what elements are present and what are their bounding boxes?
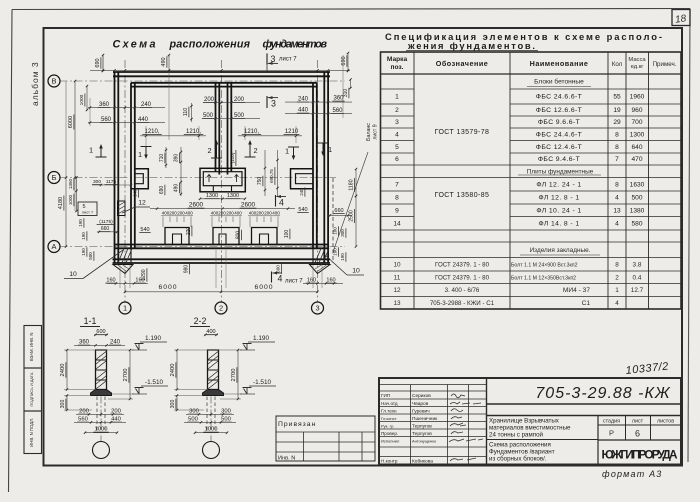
svg-text:360: 360 [79, 340, 90, 346]
svg-text:лист: лист [632, 419, 644, 425]
section 1-1 dim 2400 [66, 350, 68, 390]
svg-text:альбом 3: альбом 3 [30, 61, 40, 106]
svg-text:12.7: 12.7 [631, 287, 644, 294]
svg-text:Фундаментов /вариант: Фундаментов /вариант [489, 449, 555, 456]
pilaster on bottom wall [213, 228, 239, 245]
svg-text:200: 200 [218, 211, 226, 216]
svg-text:4: 4 [615, 300, 619, 307]
svg-text:1: 1 [395, 94, 399, 101]
svg-text:2400: 2400 [170, 364, 176, 377]
svg-text:8: 8 [615, 131, 619, 138]
svg-text:110: 110 [183, 108, 189, 116]
svg-text:ГИП: ГИП [381, 393, 390, 398]
svg-text:Марка: Марка [387, 56, 408, 63]
drawing frame [44, 28, 683, 466]
svg-text:Привязан: Привязан [278, 421, 316, 428]
привязан table box [276, 416, 375, 461]
section 2-2 axis stem [210, 397, 212, 442]
svg-text:ФБС 24.4.6-Т: ФБС 24.4.6-Т [536, 131, 582, 138]
paper edge top [12, 9, 690, 10]
svg-text:12: 12 [393, 287, 401, 294]
svg-text:310: 310 [343, 89, 349, 98]
svg-text:Кол: Кол [612, 61, 623, 68]
svg-text:ФБС 12.6.6-Т: ФБС 12.6.6-Т [536, 107, 582, 114]
spec table row lines [381, 89, 682, 297]
svg-text:560: 560 [332, 108, 343, 114]
section 1-1 dashed pier below [96, 397, 98, 434]
corner block left [118, 248, 131, 263]
svg-text:440: 440 [298, 108, 309, 114]
svg-text:расположения: расположения [169, 39, 252, 51]
paper edge right [688, 9, 690, 463]
svg-text:300: 300 [170, 400, 176, 409]
svg-text:Нач.отд: Нач.отд [381, 401, 398, 406]
svg-text:300: 300 [60, 400, 66, 409]
svg-text:3. 400 - 6/76: 3. 400 - 6/76 [445, 287, 480, 294]
axis line Б horizontal [60, 177, 337, 179]
svg-text:Обозначение: Обозначение [436, 59, 489, 68]
section mark 3 top (3 лист 7) [266, 53, 268, 64]
dim lines inner left verticals [165, 147, 167, 168]
axis circle 3 [312, 302, 324, 314]
wall right outer pair [323, 72, 325, 263]
svg-text:190: 190 [81, 232, 86, 240]
svg-text:Исполнил: Исполнил [381, 439, 400, 444]
dim ticks second row [88, 122, 165, 124]
dim 1180 vertical right [355, 169, 357, 196]
svg-text:3: 3 [271, 54, 276, 64]
svg-text:500: 500 [631, 195, 642, 202]
wall right inner pair [312, 83, 314, 248]
section mark 1 outer left [100, 148, 102, 158]
svg-text:220: 220 [186, 227, 192, 236]
svg-text:1210,: 1210, [244, 129, 259, 135]
svg-text:Наименование: Наименование [530, 59, 589, 68]
wall top outer pair [113, 71, 330, 73]
section 1-1 axis stem [100, 397, 102, 442]
axis line 1 vertical [124, 60, 126, 302]
svg-text:Блоки бетонные: Блоки бетонные [534, 78, 584, 86]
wall bottom upper pair [115, 244, 329, 246]
svg-text:200: 200 [204, 97, 215, 103]
svg-text:1000: 1000 [95, 427, 108, 433]
svg-text:240: 240 [298, 97, 309, 103]
dim 1000 upper left [86, 86, 88, 110]
svg-text:100: 100 [284, 230, 290, 239]
svg-text:ФЛ 10. 24 - 1: ФЛ 10. 24 - 1 [536, 207, 581, 214]
section 1-1 elevation 1.190 [132, 349, 147, 351]
svg-text:690: 690 [95, 58, 101, 67]
svg-text:200: 200 [79, 409, 89, 415]
svg-text:1: 1 [615, 287, 619, 294]
svg-text:2-2: 2-2 [194, 316, 207, 326]
section 2-2 dim 2400 [176, 350, 178, 390]
svg-text:2700: 2700 [231, 369, 237, 382]
svg-text:10: 10 [69, 271, 77, 278]
svg-text:2: 2 [207, 146, 211, 155]
svg-text:2700: 2700 [123, 369, 129, 382]
wall middle left leaf [215, 83, 217, 172]
svg-text:6000: 6000 [254, 284, 273, 291]
svg-text:фундаментов: фундаментов [263, 39, 329, 51]
axis circle 1 [119, 302, 131, 314]
left stamp box ИНВ.N ПОДЛ [24, 411, 42, 454]
svg-text:10: 10 [352, 268, 360, 275]
svg-text:Баланс: Баланс [366, 123, 372, 141]
svg-text:200: 200 [111, 409, 121, 415]
axis line 3 vertical [317, 60, 319, 302]
section 1-1 column [96, 350, 107, 390]
svg-text:160: 160 [307, 278, 316, 284]
svg-text:2400: 2400 [60, 364, 66, 377]
leader to Баланс [333, 152, 368, 252]
svg-text:750: 750 [257, 177, 263, 186]
svg-text:160: 160 [106, 278, 115, 284]
svg-text:300: 300 [189, 409, 199, 415]
wall middle right leaf [227, 83, 229, 175]
section mark 2 right [249, 144, 251, 158]
svg-text:240: 240 [110, 340, 121, 346]
top continuous dim line [90, 69, 350, 71]
svg-text:Схема: Схема [113, 39, 158, 51]
svg-text:ГОСТ 13579-78: ГОСТ 13579-78 [435, 129, 490, 136]
footing bracket left (axis 1/Б) [131, 169, 148, 189]
svg-text:С1: С1 [582, 300, 591, 307]
svg-text:1000: 1000 [205, 427, 218, 433]
svg-text:ГОСТ 13580-85: ГОСТ 13580-85 [435, 192, 490, 199]
section 2-2 elevation 1.190 [240, 349, 255, 351]
svg-text:440: 440 [138, 117, 149, 123]
svg-text:500: 500 [221, 417, 231, 423]
wall bottom footing pair [113, 258, 331, 260]
svg-text:660: 660 [334, 208, 343, 214]
title block text/stage divider [597, 416, 599, 465]
svg-text:стадия: стадия [603, 419, 620, 425]
svg-text:Б: Б [52, 173, 57, 182]
svg-text:1180: 1180 [349, 179, 355, 190]
footing bracket right (axis 3/Б) [291, 169, 314, 189]
left chain 4180 [65, 178, 67, 247]
svg-text:55: 55 [613, 94, 621, 101]
svg-text:540: 540 [140, 227, 149, 233]
svg-text:200: 200 [177, 211, 185, 216]
title block main vertical divider [486, 378, 488, 465]
svg-text:4: 4 [278, 274, 283, 284]
svg-text:400: 400 [234, 211, 242, 216]
svg-text:3: 3 [271, 99, 276, 109]
svg-text:Хранилище Взрывчатых: Хранилище Взрывчатых [489, 418, 560, 425]
svg-text:1380: 1380 [630, 207, 645, 214]
dim 160 160 bottom left [107, 282, 148, 284]
svg-text:жения фундаментов.: жения фундаментов. [407, 40, 536, 51]
svg-text:лист 7: лист 7 [82, 210, 93, 215]
label box 5 лист 7 [78, 202, 97, 216]
extension lines to bottom dim [119, 265, 121, 288]
svg-text:В: В [52, 77, 57, 86]
designation box line [487, 403, 682, 405]
svg-text:1-1: 1-1 [84, 316, 97, 326]
pilaster on bottom wall [252, 228, 278, 245]
svg-text:400: 400 [272, 211, 280, 216]
footing center (axis 2/Б) outer [200, 168, 245, 192]
svg-text:1.190: 1.190 [145, 335, 161, 342]
svg-text:1: 1 [328, 145, 332, 154]
svg-text:1: 1 [285, 147, 289, 156]
spec table header text [387, 56, 677, 71]
svg-text:705-3-29.88 -КЖ: 705-3-29.88 -КЖ [535, 385, 670, 402]
svg-text:ЮЖГИПРОРУДА: ЮЖГИПРОРУДА [602, 448, 678, 462]
svg-text:4: 4 [615, 195, 619, 202]
svg-text:2600: 2600 [241, 202, 256, 209]
svg-text:5: 5 [395, 144, 399, 151]
svg-text:560: 560 [101, 117, 112, 123]
svg-text:190: 190 [81, 248, 86, 256]
svg-text:8: 8 [615, 181, 619, 188]
svg-text:690: 690 [341, 56, 347, 65]
svg-text:ВЗАМ. ИНВ. N: ВЗАМ. ИНВ. N [29, 332, 34, 361]
svg-text:7: 7 [395, 181, 399, 188]
extension lines top dims [90, 55, 343, 146]
spec table header row line [381, 73, 682, 75]
svg-text:листов: листов [657, 419, 674, 425]
footing center inner [203, 172, 242, 186]
svg-text:1300: 1300 [227, 193, 239, 199]
svg-text:ГОСТ 24379. 1 - 80: ГОСТ 24379. 1 - 80 [435, 274, 490, 281]
svg-text:Кобикова: Кобикова [412, 459, 433, 465]
svg-text:500: 500 [234, 113, 245, 119]
svg-text:ФБС 9.6.6-Т: ФБС 9.6.6-Т [538, 119, 580, 126]
svg-text:4180: 4180 [58, 197, 64, 209]
svg-text:Чваров: Чваров [412, 401, 429, 407]
svg-text:660: 660 [101, 226, 110, 232]
signature squiggles [449, 394, 483, 461]
anchor bolts in center footing [207, 175, 211, 183]
svg-text:1350: 1350 [68, 178, 73, 189]
svg-text:1: 1 [138, 150, 142, 159]
axis circle А [48, 241, 60, 253]
section mark 4 bottom (4 лист 7) [271, 272, 273, 283]
svg-text:3: 3 [395, 119, 399, 126]
dim 310 vertical right [350, 80, 352, 89]
title block outer border [379, 378, 681, 465]
svg-text:700: 700 [631, 119, 642, 126]
svg-text:материалов вместимостные: материалов вместимостные [489, 425, 571, 432]
paper edge left [9, 10, 13, 493]
svg-text:24 тонны с рампой: 24 тонны с рампой [489, 432, 544, 439]
svg-text:1000: 1000 [68, 194, 73, 205]
section 1-1 dim 300 [66, 396, 68, 411]
svg-text:Рук. гр.: Рук. гр. [381, 424, 394, 429]
axis circle 2 [215, 302, 227, 314]
svg-text:200: 200 [226, 211, 234, 216]
svg-text:500: 500 [88, 252, 93, 260]
svg-text:ФБС 12.4.6-Т: ФБС 12.4.6-Т [536, 144, 582, 151]
section 2-2 dashed pier below [206, 397, 208, 434]
svg-text:240: 240 [141, 102, 152, 108]
dim 160 160 bottom right [303, 282, 343, 284]
dim triplet tick lines [163, 217, 278, 228]
svg-text:1210: 1210 [285, 129, 299, 135]
svg-text:-1.510: -1.510 [253, 379, 272, 386]
svg-text:14: 14 [393, 220, 401, 227]
svg-text:Масса: Масса [628, 57, 646, 63]
svg-text:из сборных блоков/.: из сборных блоков/. [489, 456, 547, 463]
svg-text:2500: 2500 [349, 210, 355, 222]
section mark 1 outer right [322, 143, 324, 153]
section 1-1 axis circle [93, 442, 110, 459]
corner footing splay left [113, 265, 133, 274]
axis circle Б [48, 172, 60, 184]
svg-text:ФБС 9.4.6-Т: ФБС 9.4.6-Т [538, 156, 580, 163]
section 1-1 footing [91, 390, 112, 396]
svg-text:лист 7: лист 7 [279, 57, 297, 63]
section 2-2 dim 300 [176, 396, 178, 411]
svg-text:560: 560 [78, 417, 88, 423]
svg-text:Терпугов: Терпугов [412, 431, 432, 437]
svg-text:(1175): (1175) [99, 219, 113, 225]
svg-text:200: 200 [169, 211, 177, 216]
svg-text:8: 8 [395, 195, 399, 202]
svg-text:Схема расположения: Схема расположения [489, 442, 551, 449]
svg-text:300: 300 [93, 179, 101, 185]
object title text [489, 418, 571, 439]
svg-text:400: 400 [206, 329, 215, 335]
svg-text:500: 500 [188, 417, 198, 423]
svg-text:ГОСТ 24379. 1 - 80: ГОСТ 24379. 1 - 80 [435, 261, 490, 268]
svg-text:4: 4 [395, 131, 399, 138]
bottom dim line 6000 6000 [125, 291, 318, 293]
svg-text:490: 490 [161, 57, 167, 66]
svg-text:190: 190 [340, 253, 345, 261]
section mark 1 inner left [145, 147, 147, 156]
section 2-2 dim 2700 [237, 350, 239, 399]
svg-text:7: 7 [615, 156, 619, 163]
svg-text:поз.: поз. [390, 64, 403, 71]
svg-text:440: 440 [111, 417, 121, 423]
svg-text:Гл.конст: Гл.конст [381, 416, 397, 421]
svg-text:6: 6 [635, 429, 640, 439]
svg-text:1300: 1300 [206, 193, 218, 199]
svg-text:500: 500 [203, 113, 214, 119]
svg-text:3.8: 3.8 [633, 261, 642, 268]
svg-text:-1.510: -1.510 [145, 379, 164, 386]
svg-text:(110): (110) [230, 152, 236, 163]
left stamp box ПОДПИСЬ И ДАТА [24, 368, 42, 411]
svg-text:0.4: 0.4 [633, 274, 642, 281]
svg-text:705-3-2988 - КЖИ - С1: 705-3-2988 - КЖИ - С1 [430, 300, 495, 307]
axis line B horizontal [60, 80, 346, 82]
dim row above wall 690/490 [102, 55, 104, 71]
axis circle В [48, 75, 60, 87]
svg-text:ФБС 24.6.6-Т: ФБС 24.6.6-Т [536, 94, 582, 101]
svg-text:4: 4 [615, 220, 619, 227]
svg-text:200: 200 [264, 211, 272, 216]
section 1-1 level extension lines [64, 349, 134, 351]
svg-text:ед.кг: ед.кг [631, 64, 644, 70]
dim 2500 vertical right [355, 196, 357, 247]
svg-text:13: 13 [613, 207, 621, 214]
svg-text:4: 4 [279, 198, 284, 208]
svg-text:1210,: 1210, [144, 129, 159, 135]
left stamp box ВЗАМ.ИНВ.N [24, 326, 42, 369]
svg-text:690,75: 690,75 [269, 169, 274, 183]
left chain connector [65, 81, 67, 178]
sheet title text [489, 442, 555, 463]
svg-text:200: 200 [256, 211, 264, 216]
section 2-2 axis circle [203, 442, 220, 459]
svg-text:Примеч.: Примеч. [653, 61, 677, 68]
sheet number box 18 [672, 10, 690, 26]
svg-text:10: 10 [393, 261, 401, 268]
svg-text:18: 18 [674, 13, 687, 26]
axis line 2 vertical [221, 60, 223, 302]
svg-text:6000: 6000 [68, 116, 74, 128]
footing center bottom step [212, 186, 214, 192]
svg-text:ПОДПИСЬ И ДАТА: ПОДПИСЬ И ДАТА [29, 372, 34, 406]
dashed hidden line right [332, 178, 334, 263]
svg-text:13: 13 [393, 300, 401, 307]
svg-text:11: 11 [394, 274, 401, 281]
svg-text:690: 690 [159, 186, 165, 195]
section 2-2 footing [203, 390, 224, 396]
svg-text:лист 7: лист 7 [285, 279, 303, 285]
svg-text:1960: 1960 [630, 94, 645, 101]
section 2-2 column [208, 350, 219, 390]
svg-text:360: 360 [99, 102, 110, 108]
section mark 1 inner right [293, 147, 295, 157]
svg-text:Н.контр: Н.контр [381, 459, 398, 464]
svg-text:ФЛ 12. 24 - 1: ФЛ 12. 24 - 1 [536, 181, 581, 188]
stage header boxes [625, 416, 627, 441]
svg-text:540: 540 [298, 207, 307, 213]
svg-text:190: 190 [78, 219, 83, 227]
wall left inner pair [130, 83, 132, 248]
svg-text:390: 390 [174, 154, 180, 163]
svg-text:600: 600 [96, 329, 105, 335]
svg-text:710: 710 [159, 154, 165, 163]
dim ticks top row [88, 107, 165, 109]
svg-text:300: 300 [221, 409, 231, 415]
svg-text:Изделия закладные.: Изделия закладные. [530, 247, 591, 254]
svg-text:9: 9 [395, 207, 399, 214]
svg-text:3: 3 [315, 304, 319, 313]
svg-text:ФЛ 14. 8 - 1: ФЛ 14. 8 - 1 [538, 220, 579, 227]
svg-text:1: 1 [123, 304, 127, 313]
svg-text:470: 470 [631, 156, 642, 163]
svg-text:1210,: 1210, [186, 129, 201, 135]
axis line А horizontal [60, 246, 346, 248]
svg-text:Плиты фундаментные: Плиты фундаментные [527, 168, 594, 175]
svg-text:1: 1 [89, 146, 93, 155]
svg-text:8: 8 [615, 144, 619, 151]
svg-text:160: 160 [326, 278, 335, 284]
svg-text:800: 800 [236, 231, 242, 240]
svg-text:МИ4 - 37: МИ4 - 37 [563, 287, 590, 294]
svg-text:490: 490 [174, 184, 180, 193]
svg-text:600: 600 [276, 265, 281, 273]
svg-text:лист 9: лист 9 [373, 124, 379, 139]
svg-text:Сериков: Сериков [412, 393, 431, 399]
left chain 6000 [74, 81, 76, 178]
svg-text:1300: 1300 [630, 131, 645, 138]
dims 1350 1000 below Б [76, 178, 78, 212]
svg-text:Терпугов: Терпугов [412, 424, 432, 430]
wall left outer pair [114, 72, 116, 263]
svg-text:Провер.: Провер. [381, 431, 398, 436]
section 2-2 elevation -1.510 [240, 393, 255, 395]
svg-text:580: 580 [631, 220, 642, 227]
svg-text:2: 2 [253, 146, 257, 155]
